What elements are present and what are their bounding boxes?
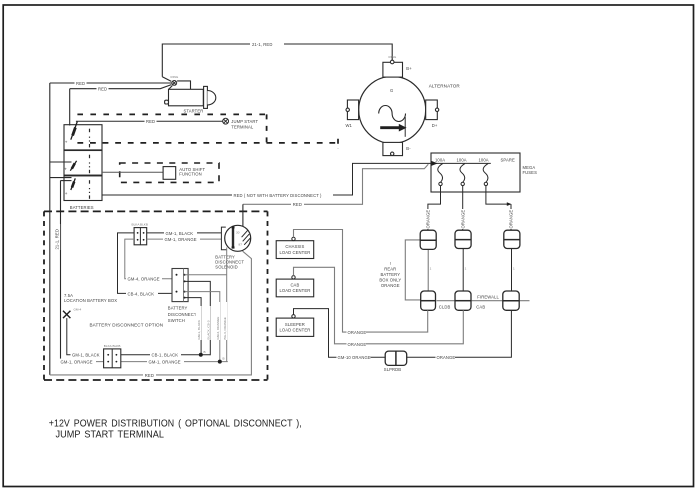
svg-text:SPARE: SPARE <box>501 157 515 162</box>
alternator sine symbol <box>379 106 406 122</box>
wire cab load center to CAB connector <box>294 267 464 344</box>
wire GM-1 ORANGE right run <box>121 361 228 363</box>
svg-text:+12V POWER DISTRIBUTION ( OPTI: +12V POWER DISTRIBUTION ( OPTIONAL DISCO… <box>49 418 302 429</box>
svg-text:JUMP START TERMINAL: JUMP START TERMINAL <box>56 430 165 441</box>
fuse F1 100A <box>438 164 443 186</box>
alternator terminal D+ <box>426 100 439 120</box>
wire label RED <box>291 201 304 207</box>
wire label GM-10 ORANGE <box>337 354 371 360</box>
sleeper load center box <box>276 318 314 336</box>
dashed boundary long bottom <box>77 142 338 144</box>
fuse location X 7.5A <box>63 311 70 318</box>
auto shift function box <box>163 167 176 180</box>
wire label ORANGE (vertical, col1) <box>425 209 431 229</box>
wire label ORANGE <box>347 329 367 335</box>
wire label GM-4, ORANGE <box>126 276 162 282</box>
alternator terminal B- <box>383 142 403 155</box>
svg-text:DISCONNECT: DISCONNECT <box>168 312 197 317</box>
wire fuse F3 to connector column 3 <box>486 186 510 205</box>
wire label CB-4, BLACK <box>126 290 158 296</box>
fuse F3 100A <box>483 164 488 186</box>
svg-text:1: 1 <box>513 267 515 271</box>
svg-text:ORANGE: ORANGE <box>426 210 431 229</box>
auto shift dashed box <box>120 163 219 182</box>
svg-text:REAR: REAR <box>384 267 396 272</box>
chassis load center eye <box>292 237 295 240</box>
svg-text:BLKA: BLKA <box>104 344 113 348</box>
wire solenoid top to RED bus <box>242 204 244 226</box>
wire CB-1 BLACK right run <box>121 354 211 356</box>
wire solenoid 87 drop <box>226 248 228 362</box>
cab load center eye <box>292 276 295 279</box>
connector C6 lower <box>503 291 519 310</box>
wire label RED ( NOT WITH BATTERY DISCONNECT ) <box>232 192 333 198</box>
svg-text:+: + <box>65 191 68 196</box>
wire RED bottom run to solenoid <box>50 251 252 375</box>
connector C5 lower CAB <box>455 291 471 310</box>
mega fuses box <box>431 153 520 192</box>
wire label RED <box>143 372 156 378</box>
wire RED 1 (battery bus to starter terminal) <box>50 82 172 84</box>
connector SLPRDB <box>385 351 407 365</box>
wire column 3 between connectors <box>511 249 513 292</box>
note REAR BATTERY BOX ONLY ORANGE <box>379 261 401 288</box>
jump start dashed boundary right <box>266 114 268 143</box>
battery disconnect option dashed box <box>44 211 268 380</box>
wire label ORANGE <box>347 341 367 347</box>
svg-text:ORANGE: ORANGE <box>348 342 367 347</box>
wire GM-1 ORANGE left run <box>61 361 104 363</box>
node label 21-1, RED <box>250 41 284 48</box>
alternator commutator line <box>404 117 406 137</box>
junction dot B <box>218 360 222 364</box>
svg-text:CAB: CAB <box>476 305 485 310</box>
wire label GM-1, BLACK (vertical) <box>195 306 201 340</box>
svg-text:GM-1, ORANGE: GM-1, ORANGE <box>165 237 197 242</box>
svg-text:FUSES: FUSES <box>523 170 538 175</box>
jump start terminal circle-X <box>223 118 229 124</box>
svg-text:ORANGE: ORANGE <box>437 355 456 360</box>
rear battery box bypass bracket <box>405 240 420 300</box>
wire sleeper load center to SLPRDB <box>294 309 386 358</box>
wire RED to jump start terminal <box>76 120 223 122</box>
battery B1 <box>64 125 102 150</box>
svg-text:BLACK, CB-3: BLACK, CB-3 <box>206 320 210 339</box>
wire J1 left to CB-4 BLACK <box>118 233 174 294</box>
bus entry arrowhead <box>431 161 438 166</box>
wire label RED <box>145 118 157 124</box>
wire battery2 to auto shift <box>102 171 163 173</box>
svg-text:21-1, RED: 21-1, RED <box>55 229 60 249</box>
svg-text:1: 1 <box>465 267 467 271</box>
fuse F2 100A <box>460 164 465 186</box>
jump start dashed boundary top <box>77 113 266 115</box>
connector C4 lower CLDB <box>421 291 436 310</box>
svg-text:21-1, RED: 21-1, RED <box>252 42 272 47</box>
wire label GM-2, ORANGE (vertical) <box>214 302 220 340</box>
svg-text:FUNCTION: FUNCTION <box>179 172 201 177</box>
svg-text:100A: 100A <box>435 157 445 162</box>
svg-text:CLDB: CLDB <box>439 305 451 310</box>
svg-text:RING: RING <box>171 75 179 79</box>
battery B3 positive post blade <box>71 178 76 190</box>
wire SLPRDB to C6 <box>407 310 512 357</box>
wire label RED <box>75 80 87 86</box>
cab load center box <box>276 279 314 297</box>
battery B2 <box>64 151 102 176</box>
junction dot A <box>199 353 203 357</box>
svg-text:GM-1, BLACK: GM-1, BLACK <box>197 319 201 340</box>
wire RED (NOT WITH BATTERY DISCONNECT) <box>102 163 432 195</box>
wire chassis load center to CLDB <box>294 230 428 333</box>
svg-text:BLKB: BLKB <box>140 222 148 226</box>
connector C2 upper <box>455 230 471 248</box>
svg-text:BATTERY DISCONNECT OPTION: BATTERY DISCONNECT OPTION <box>90 322 164 327</box>
svg-text:GM-10 ORANGE: GM-10 ORANGE <box>338 355 371 360</box>
label FIREWALL <box>477 294 500 300</box>
svg-text:RING: RING <box>389 55 397 59</box>
svg-text:G: G <box>390 88 393 93</box>
svg-text:SLEEPER: SLEEPER <box>285 322 305 327</box>
wire label ORANGE (vertical, col3) <box>508 209 514 229</box>
wire switch pin3 <box>185 292 220 362</box>
svg-text:BG-3, ORANGE: BG-3, ORANGE <box>223 317 227 339</box>
connector J1 (solenoid harness) <box>134 228 147 245</box>
svg-text:SWITCH: SWITCH <box>168 318 185 323</box>
wire GM-1 BLACK left run <box>67 318 104 355</box>
svg-text:B+: B+ <box>406 66 412 71</box>
connector C1 upper <box>420 230 436 249</box>
battery disconnect switch S1 <box>172 269 188 302</box>
wire 21-1 RED top loop <box>162 44 392 77</box>
svg-text:B: B <box>223 357 225 361</box>
firewall line <box>437 300 530 302</box>
starter motor M1 <box>162 77 215 109</box>
svg-text:RED: RED <box>293 202 302 207</box>
svg-text:BATTERY: BATTERY <box>380 272 400 277</box>
wire RED 2 (battery 1 to starter terminal) <box>70 85 172 89</box>
wire label ORANGE <box>436 354 456 360</box>
svg-text:87: 87 <box>239 243 243 247</box>
svg-text:JUMP START: JUMP START <box>231 119 258 124</box>
svg-text:CB-1, BLACK: CB-1, BLACK <box>152 353 179 358</box>
svg-text:GM-1, ORANGE: GM-1, ORANGE <box>149 360 181 365</box>
battery B1 positive post blade <box>71 122 78 140</box>
wire fuse F2 to connector column 2 <box>462 186 464 231</box>
connector J2 body <box>104 349 121 368</box>
starter solenoid terminal circle-X <box>172 81 177 86</box>
svg-text:30: 30 <box>236 231 240 235</box>
svg-text:SLPRDB: SLPRDB <box>384 367 401 372</box>
wire switch pin1 to orange bus <box>185 274 227 276</box>
fuse bus wire <box>431 162 491 164</box>
svg-text:CB-4, BLACK: CB-4, BLACK <box>128 291 155 296</box>
sleeper load center eye <box>292 315 295 318</box>
battery B2 positive post blade <box>70 161 76 171</box>
battery B2 cell marks <box>89 155 91 174</box>
wire label 21-1, RED (vertical) <box>54 224 60 250</box>
svg-text:GM-2, ORANGE: GM-2, ORANGE <box>216 317 220 340</box>
svg-text:CAB: CAB <box>290 283 299 288</box>
wire switch pin2 <box>185 281 211 355</box>
wire battery3 feed lower <box>61 180 72 182</box>
chassis load center box <box>276 241 314 259</box>
wire RED from solenoid to mega fuses <box>243 164 428 204</box>
svg-text:GM-4, ORANGE: GM-4, ORANGE <box>128 277 160 282</box>
svg-text:B-: B- <box>406 146 411 151</box>
wire column 2 between connectors <box>462 249 464 292</box>
svg-text:+: + <box>64 166 67 171</box>
svg-text:100A: 100A <box>457 157 467 162</box>
svg-text:GM-1, ORANGE: GM-1, ORANGE <box>61 360 93 365</box>
svg-text:RED: RED <box>145 373 154 378</box>
svg-text:GM-4: GM-4 <box>74 308 82 312</box>
svg-text:D+: D+ <box>432 123 438 128</box>
svg-text:ORANGE: ORANGE <box>381 283 400 288</box>
svg-text:RED: RED <box>98 87 107 92</box>
svg-text:LOAD CENTER: LOAD CENTER <box>279 250 310 255</box>
svg-text:TERMINAL: TERMINAL <box>231 125 254 130</box>
wire battery1 feed x=69.7 <box>69 89 71 126</box>
dashed tick end <box>337 139 339 149</box>
svg-text:GM-1, BLACK: GM-1, BLACK <box>166 231 194 236</box>
svg-text:1: 1 <box>430 267 432 271</box>
svg-text:LOAD CENTER: LOAD CENTER <box>279 327 310 332</box>
svg-text:W1: W1 <box>346 123 353 128</box>
wire column 1 between connectors <box>427 249 429 291</box>
battery B1 cell marks <box>89 129 91 148</box>
alternator terminal W1 <box>346 100 359 120</box>
svg-text:LOAD CENTER: LOAD CENTER <box>279 288 310 293</box>
svg-text:ORANGE: ORANGE <box>460 210 465 229</box>
svg-text:BATTERIES: BATTERIES <box>70 205 94 210</box>
wire battery3 feed upper <box>50 177 72 179</box>
wire switch pin4 <box>185 298 202 356</box>
svg-text:+: + <box>65 140 68 145</box>
wire label ORANGE (vertical, col2) <box>460 209 466 229</box>
battery B3 cell marks <box>89 180 91 199</box>
battery disconnect solenoid K1 <box>221 225 250 251</box>
svg-text:RED: RED <box>76 81 85 86</box>
svg-text:CHASSIS: CHASSIS <box>285 244 304 249</box>
svg-text:RED ( NOT WITH BATTERY DISCONN: RED ( NOT WITH BATTERY DISCONNECT ) <box>234 193 323 198</box>
wire label BG-3, ORANGE (vertical) <box>221 302 227 340</box>
wire label BLACK, CB-3 (vertical) <box>205 306 211 340</box>
alternator terminal B+ <box>383 60 403 77</box>
svg-text:!: ! <box>390 261 391 266</box>
wire GM-1 ORANGE to solenoid <box>147 238 222 240</box>
svg-text:LOCATION BATTERY BOX: LOCATION BATTERY BOX <box>64 298 117 303</box>
svg-text:BOX ONLY: BOX ONLY <box>379 278 401 283</box>
svg-text:B: B <box>204 350 206 354</box>
wire vertical bus B x=60.5 <box>60 181 62 362</box>
svg-text:STARTER: STARTER <box>184 108 204 113</box>
svg-text:GM-1, BLACK: GM-1, BLACK <box>72 353 100 358</box>
wire vertical bus A x=50 <box>49 83 51 375</box>
alternator G1 body <box>359 76 426 143</box>
alternator rotation arrow <box>380 124 406 132</box>
battery B3 <box>64 176 102 201</box>
svg-text:BATTERY: BATTERY <box>168 306 188 311</box>
wire label RED <box>97 86 109 92</box>
svg-text:100A: 100A <box>479 157 489 162</box>
svg-text:BLKB: BLKB <box>113 344 121 348</box>
wire J1 left to GM-4 ORANGE <box>125 239 173 279</box>
wire GM-1 BLACK to solenoid <box>147 232 222 234</box>
svg-text:ORANGE: ORANGE <box>348 330 367 335</box>
connector C3 upper <box>504 230 520 248</box>
svg-text:ORANGE: ORANGE <box>509 210 514 229</box>
svg-text:RED: RED <box>146 119 155 124</box>
svg-text:ALTERNATOR: ALTERNATOR <box>429 84 461 89</box>
svg-text:FIREWALL: FIREWALL <box>477 294 499 299</box>
wire battery2 feed <box>50 161 72 163</box>
wire fuse F1 to connector column 1 <box>428 186 441 231</box>
